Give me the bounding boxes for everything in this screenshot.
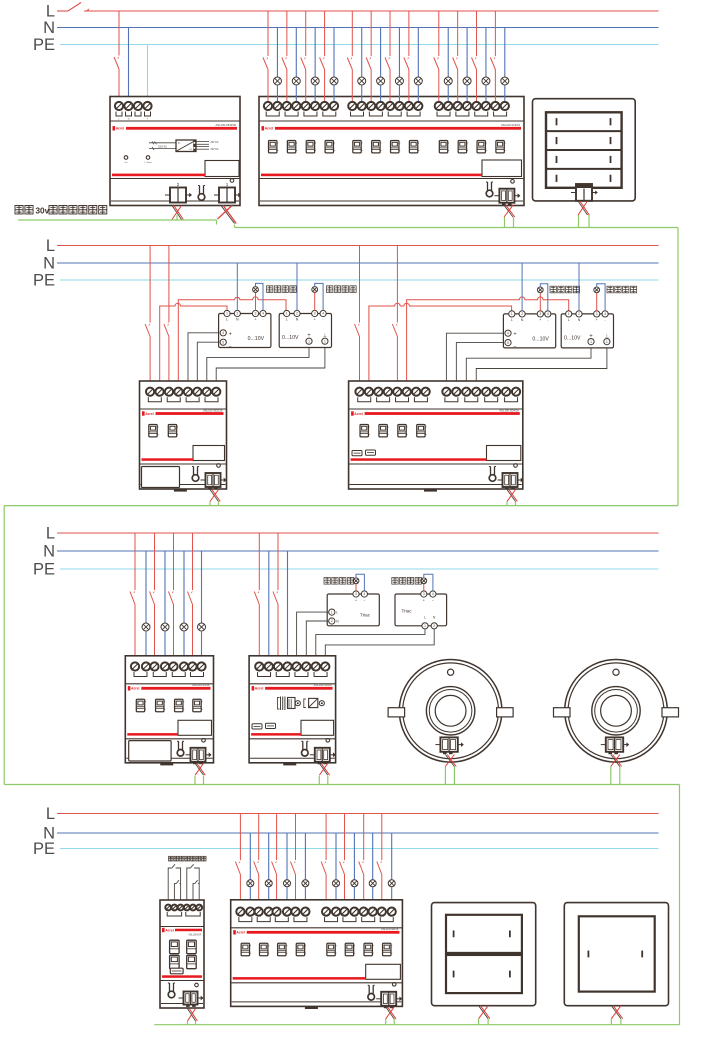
ballast 3 (0...10V) bbox=[503, 314, 555, 348]
dimmer module 2 channel selector switches bbox=[360, 425, 370, 437]
wire PE to PSU terminal 4 bbox=[147, 45, 149, 103]
dimmer module 2 red stripe with logo and model bbox=[351, 411, 354, 415]
svg-text:L: L bbox=[46, 3, 55, 21]
8ch switch actuator face divider bbox=[231, 982, 403, 984]
svg-text:4: 4 bbox=[364, 592, 366, 596]
svg-text:+: + bbox=[255, 318, 257, 322]
binary input KNX connector bbox=[179, 992, 204, 1007]
wire N to PSU terminal 2 bbox=[128, 28, 130, 103]
actuator 12 channel selector switches bbox=[269, 141, 279, 153]
svg-text:+: + bbox=[229, 331, 232, 337]
section3 switch actuator notch panel bbox=[178, 720, 212, 735]
actuator terminal screws group 2 bbox=[348, 102, 356, 110]
svg-text:+: + bbox=[423, 599, 425, 603]
svg-text:Acrel: Acrel bbox=[354, 412, 363, 416]
triac dimmer module lower red stripe bbox=[251, 733, 301, 736]
svg-text:4: 4 bbox=[222, 331, 224, 335]
svg-text:2: 2 bbox=[433, 624, 435, 628]
svg-text:ASL100-S8/16: ASL100-S8/16 bbox=[381, 927, 399, 931]
triac dimmer module face graphic bbox=[278, 698, 280, 710]
wire PE bus bbox=[60, 848, 659, 850]
dimmer module 2 terminal divider bbox=[349, 408, 523, 410]
section3 switch actuator KNX LED bbox=[202, 739, 206, 743]
X junction under dimmer module 2 bbox=[507, 490, 517, 502]
PSU KNX LED bbox=[230, 179, 234, 183]
svg-text:L: L bbox=[511, 318, 513, 322]
lamp load 1 (dimmable) bbox=[255, 292, 257, 310]
svg-text:5: 5 bbox=[507, 341, 509, 345]
svg-text:+: + bbox=[355, 599, 357, 603]
KNX downlight 2 KNX connector bbox=[601, 737, 629, 754]
label dimmable lamp 2 bbox=[327, 286, 333, 293]
X junction under panel bbox=[578, 201, 589, 215]
KNX green bus section2-3 bbox=[4, 505, 678, 507]
triac dimmer box 1 bbox=[327, 594, 379, 626]
green risers KNX downlight 2 bbox=[610, 767, 612, 785]
8ch switch actuator red stripe with logo and model bbox=[233, 930, 236, 934]
svg-text:4: 4 bbox=[507, 331, 509, 335]
svg-text:3: 3 bbox=[596, 312, 598, 316]
PSU notch panel bbox=[205, 161, 239, 177]
label dimmable lamp 4 bbox=[607, 286, 613, 293]
green risers triac module bbox=[318, 776, 320, 785]
binary input KNX LED bbox=[195, 983, 199, 987]
svg-text:L: L bbox=[46, 237, 55, 255]
binary input module body (ASL100-DI4) bbox=[160, 900, 204, 1008]
binary input terminal divider bbox=[160, 926, 204, 928]
wire L to triac-dimmer T3 with breaker bbox=[277, 533, 279, 590]
binary input selector switches bbox=[170, 940, 180, 953]
green risers 8ch actuator bbox=[385, 1019, 387, 1025]
svg-text:Acrel: Acrel bbox=[265, 127, 274, 131]
svg-text:ASL100-S4/16: ASL100-S4/16 bbox=[192, 683, 210, 687]
wire dimmer1 T6 to ballast1 minus bbox=[197, 342, 220, 386]
svg-text:1: 1 bbox=[424, 624, 426, 628]
svg-text:3: 3 bbox=[355, 592, 357, 596]
channel wires L/N with breakers and lamp loads bbox=[267, 11, 269, 56]
svg-text:4: 4 bbox=[322, 312, 324, 316]
svg-text:0...10V: 0...10V bbox=[532, 336, 549, 342]
X junction under binary input bbox=[188, 1009, 198, 1022]
svg-text:3: 3 bbox=[423, 592, 425, 596]
dimmer module 1 face divider bbox=[140, 463, 227, 465]
wire N to triac-dimmer T4 bbox=[287, 551, 289, 666]
green risers binary input bbox=[187, 1021, 189, 1025]
X junction under wall switch panel 2 bbox=[611, 1006, 622, 1019]
dimmer module 1 channel selector switches bbox=[149, 425, 159, 437]
X junction under PSU block 2 bbox=[172, 206, 183, 220]
section3 switch actuator terminal divider bbox=[125, 683, 213, 685]
svg-text:L: L bbox=[568, 318, 570, 322]
section3 actuator channel wires with breakers and lamps bbox=[134, 533, 136, 590]
svg-text:4: 4 bbox=[432, 592, 434, 596]
wire L to dimmer1 T1 with breaker bbox=[149, 246, 151, 323]
svg-text:L: L bbox=[226, 318, 228, 322]
svg-text:Acrel: Acrel bbox=[236, 931, 245, 935]
svg-text:1: 1 bbox=[606, 340, 608, 344]
svg-text:PE: PE bbox=[33, 840, 55, 858]
dimmer module 1 terminal screws bbox=[146, 388, 154, 396]
wall switch panel 1 body bbox=[432, 903, 536, 1006]
PSU red stripe with Acrel logo and model bbox=[113, 126, 116, 130]
8ch actuator channel wires with breakers and lamps bbox=[239, 814, 241, 861]
PSU AC/DC converter graphic bbox=[149, 142, 176, 144]
8ch switch actuator channel selector switches bbox=[241, 943, 251, 955]
X junction under actuator KNX bbox=[504, 205, 515, 217]
triac dimmer module KNX connector bbox=[310, 748, 336, 764]
dimmer module 1 lower red stripe bbox=[142, 458, 194, 461]
wire dimmer2 T12 to ballast4 minus bbox=[476, 345, 607, 388]
wire N to ballast3 T2 bbox=[521, 263, 523, 311]
svg-text:5: 5 bbox=[222, 340, 224, 344]
wall switch panel 1 rockers bbox=[446, 915, 522, 953]
binary input thermometer bbox=[168, 983, 175, 998]
svg-text:Acrel: Acrel bbox=[131, 687, 140, 691]
svg-text:ASL100-SD2/16: ASL100-SD2/16 bbox=[203, 408, 223, 412]
label dimmable lamp 5 bbox=[324, 578, 330, 585]
dimmer module 2 programming ports bbox=[352, 451, 362, 456]
X junction under 8ch switch actuator bbox=[386, 1007, 396, 1019]
wire PE bus bbox=[60, 568, 659, 570]
PSU LED I/Imax bbox=[146, 156, 150, 160]
svg-text:N: N bbox=[43, 543, 55, 561]
svg-text:1: 1 bbox=[331, 610, 333, 614]
8ch switch actuator body (ASL100-S8/16) bbox=[231, 900, 403, 1007]
section3 switch actuator terminal screws bbox=[131, 662, 139, 670]
wire PE bus bbox=[60, 44, 659, 46]
svg-text:1: 1 bbox=[324, 339, 326, 343]
svg-text:4: 4 bbox=[547, 312, 549, 316]
triac dimmer module notch panel bbox=[301, 720, 334, 735]
actuator terminal screws group 3 bbox=[435, 102, 443, 110]
wall switch panel 2 rockers bbox=[579, 916, 655, 991]
PSU terminal section divider bbox=[110, 120, 240, 122]
dimmer module 2 KNX LED bbox=[514, 464, 518, 468]
svg-text:L: L bbox=[424, 616, 426, 620]
8ch switch actuator KNX connector bbox=[376, 992, 402, 1008]
KNX downlight 2 body bbox=[565, 660, 668, 763]
svg-text:L: L bbox=[46, 805, 55, 823]
label dimmable lamp 1 bbox=[267, 286, 273, 293]
dimmer module 1 thermometer icon bbox=[192, 467, 199, 482]
svg-text:2: 2 bbox=[296, 312, 298, 316]
svg-text:ASL100-SD1/6: ASL100-SD1/6 bbox=[314, 683, 332, 687]
KNX green bus B bbox=[235, 227, 679, 229]
label external dry contact signal bbox=[169, 856, 173, 861]
green risers wall switch panel 2 bbox=[610, 1019, 612, 1025]
actuator terminal divider bbox=[259, 120, 524, 122]
svg-text:3: 3 bbox=[255, 312, 257, 316]
wire triac1 N to module T6 bbox=[306, 621, 328, 666]
X junction under dimmer module 1 bbox=[210, 490, 220, 502]
dimmer module 1 body (ASL100-SD2/16) bbox=[140, 381, 227, 489]
svg-text:+: + bbox=[314, 318, 316, 322]
wire dimmer2 T9 to ballast3 plus bbox=[446, 333, 505, 387]
8ch switch actuator KNX LED bbox=[392, 983, 396, 987]
wire L bus bbox=[57, 813, 659, 815]
dimmer module 1 terminal divider bbox=[140, 408, 227, 410]
wire dimmer2 T6 to ballast4 L bbox=[407, 297, 569, 388]
svg-text:ASL100-DI4: ASL100-DI4 bbox=[188, 934, 201, 937]
section3 switch actuator red stripe with logo and model bbox=[128, 686, 131, 690]
X junction under PSU block 1 bbox=[221, 206, 235, 224]
actuator thermometer icon bbox=[486, 182, 493, 197]
KNX downlight 1 body bbox=[399, 660, 502, 763]
section3 switch actuator label plate bbox=[129, 741, 171, 761]
PSU face divider bbox=[110, 178, 240, 180]
triac dimmer module terminal divider bbox=[249, 683, 336, 685]
binary input dry-contact wires bbox=[168, 868, 172, 910]
triac dimmer module terminal screws bbox=[255, 662, 263, 670]
svg-text:1: 1 bbox=[590, 340, 592, 344]
wire triac2 N to module T8 bbox=[325, 629, 434, 666]
lamp load 3 (dimmable) bbox=[539, 293, 541, 311]
wire L bus bbox=[57, 245, 659, 247]
dimmer module 2 notch panel bbox=[487, 446, 521, 461]
svg-text:L: L bbox=[286, 318, 288, 322]
binary input terminal screws bbox=[165, 905, 171, 911]
svg-text:ASL100-SD4/16: ASL100-SD4/16 bbox=[499, 408, 519, 412]
ballast 2 (0...10V) bbox=[279, 314, 331, 348]
section3 switch actuator body (ASL100-S4/16) bbox=[125, 656, 213, 763]
svg-text:Triac: Triac bbox=[401, 609, 412, 614]
svg-text:220V AC: 220V AC bbox=[158, 146, 167, 149]
dimmer module 1 KNX LED bbox=[217, 464, 221, 468]
8ch switch actuator thermometer icon bbox=[368, 985, 375, 1000]
dimmer module 1 notch panel bbox=[193, 446, 225, 461]
wire L to triac-dimmer T1 with breaker bbox=[258, 533, 260, 590]
svg-text:0...10V: 0...10V bbox=[248, 336, 265, 342]
actuator KNX connector bbox=[494, 189, 520, 205]
wire L bus with main switch bbox=[57, 10, 68, 12]
wire triac2 L to module T7 bbox=[316, 629, 425, 666]
triac dimmer module red stripe with logo and model bbox=[252, 686, 255, 690]
ballast 4 (0...10V) bbox=[561, 314, 613, 348]
svg-text:-: - bbox=[605, 318, 606, 322]
X junction under KNX downlight 1 bbox=[445, 755, 456, 767]
green risers dimmer2 to bus bbox=[506, 502, 508, 506]
8ch switch actuator terminal screws bbox=[236, 908, 244, 916]
green risers KNX downlight 1 bbox=[444, 767, 446, 785]
svg-text:3: 3 bbox=[539, 312, 541, 316]
wire N to triac-dimmer T2 bbox=[268, 551, 270, 666]
wire L to dimmer1 T3 with breaker bbox=[168, 246, 170, 323]
section3 switch actuator channel selector switches bbox=[136, 699, 146, 711]
dimmer module 2 thermometer icon bbox=[489, 467, 496, 482]
lamp load 4 (dimmable) bbox=[596, 293, 598, 311]
wire L to dimmer2 T5 with breaker bbox=[396, 246, 398, 323]
green risers dimmer1 to bus bbox=[209, 502, 211, 506]
dimmer module 2 KNX connector bbox=[498, 473, 524, 489]
svg-text:I / Imax: I / Imax bbox=[144, 162, 152, 164]
wire N bus bbox=[57, 550, 659, 552]
wire N to ballast1 T2 bbox=[236, 263, 238, 311]
dimmer module 1 red stripe with logo and model bbox=[142, 411, 145, 415]
svg-text:+: + bbox=[513, 332, 516, 338]
wire N bus bbox=[57, 832, 659, 834]
wire dimmer2 T11 to ballast4 plus bbox=[466, 345, 591, 388]
X junction under section3 switch actuator bbox=[195, 763, 205, 775]
triac dimmer box 2 bbox=[395, 594, 447, 626]
KNX green bus A from PSU output bbox=[18, 219, 217, 221]
svg-text:-: - bbox=[323, 318, 324, 322]
wire dimmer1 T5 to ballast1 plus bbox=[188, 333, 220, 387]
svg-text:30v: 30v bbox=[36, 207, 50, 216]
svg-text:2: 2 bbox=[521, 312, 523, 316]
label dimmable lamp 6 bbox=[392, 578, 398, 585]
svg-text:1: 1 bbox=[226, 312, 228, 316]
8ch switch actuator lower red stripe bbox=[233, 977, 366, 980]
svg-text:2: 2 bbox=[236, 312, 238, 316]
wire PE bus bbox=[60, 279, 659, 281]
green risers wall switch panel 1 bbox=[478, 1019, 480, 1025]
svg-text:Acrel: Acrel bbox=[165, 928, 174, 932]
wire dimmer2 T2 to ballast3 L bbox=[369, 303, 512, 387]
svg-text:29V DC: 29V DC bbox=[211, 149, 219, 151]
switch actuator ASL100-S12/16 body bbox=[259, 97, 524, 206]
8ch switch actuator notch panel bbox=[366, 964, 401, 979]
svg-text:-: - bbox=[262, 318, 263, 322]
X junction under wall switch panel 1 bbox=[479, 1006, 490, 1019]
wire triac1 L to module T5 bbox=[297, 612, 329, 665]
svg-text:1: 1 bbox=[308, 339, 310, 343]
actuator notch panel bbox=[482, 160, 522, 177]
svg-text:1: 1 bbox=[511, 312, 513, 316]
dimmer module 2 body (ASL100-SD4/16) bbox=[349, 381, 523, 489]
actuator red stripe with logo and model bbox=[262, 126, 265, 130]
lamp load 5 (triac 1) bbox=[355, 584, 357, 591]
binary input red stripe bbox=[162, 928, 165, 932]
X junction under triac dimmer module bbox=[319, 763, 329, 775]
wall switch panel 2 body bbox=[564, 903, 668, 1006]
svg-text:ASL100-P640/30: ASL100-P640/30 bbox=[216, 123, 237, 127]
wire L to PSU terminal 1 with breaker bbox=[118, 11, 120, 56]
svg-text:+: + bbox=[596, 318, 598, 322]
wire dimmer1 T2 to ballast1 L bbox=[160, 303, 227, 386]
triac dimmer module KNX LED bbox=[326, 739, 330, 743]
svg-text:Triac: Triac bbox=[360, 613, 371, 618]
ballast 1 (0...10V) bbox=[219, 314, 271, 348]
dimmer module 1 label plate bbox=[142, 467, 180, 488]
wire N bus bbox=[57, 262, 659, 264]
dimmer module 1 KNX connector bbox=[201, 473, 227, 489]
wire N to ballast2 T2 bbox=[296, 263, 298, 311]
svg-text:2: 2 bbox=[578, 312, 580, 316]
wire dimmer1 T8 to ballast2 minus bbox=[216, 345, 325, 387]
KNX downlight 1 KNX connector bbox=[435, 737, 463, 754]
PSU lower red stripe bbox=[112, 174, 205, 177]
triac dimmer module thermometer icon bbox=[301, 741, 308, 756]
svg-text:Acrel: Acrel bbox=[116, 127, 125, 131]
svg-text:PE: PE bbox=[33, 36, 55, 54]
PSU LED On bbox=[124, 156, 128, 160]
push button panel body bbox=[533, 99, 636, 201]
dimmer module 2 lower red stripe bbox=[351, 458, 487, 461]
svg-text:+: + bbox=[539, 318, 541, 322]
panel KNX connector bbox=[576, 184, 592, 189]
svg-text:Acrel: Acrel bbox=[145, 412, 154, 416]
green risers section3 actuator bbox=[194, 776, 196, 785]
svg-text:L: L bbox=[46, 525, 55, 543]
svg-text:PE: PE bbox=[33, 561, 55, 579]
wire N bus bbox=[57, 27, 659, 29]
actuator lower red stripe bbox=[261, 174, 482, 177]
wire dimmer1 T4 to ballast2 L bbox=[178, 297, 286, 387]
svg-text:L: L bbox=[336, 611, 338, 615]
section3 switch actuator face divider bbox=[125, 738, 213, 740]
push button panel 4 rockers bbox=[546, 112, 622, 188]
PSU terminal screws L N - PE bbox=[115, 102, 123, 110]
X junction under KNX downlight 2 bbox=[611, 755, 622, 767]
svg-text:N: N bbox=[43, 19, 55, 37]
section3 switch actuator thermometer icon bbox=[177, 741, 184, 756]
wire L to dimmer2 T1 with breaker bbox=[359, 246, 361, 323]
binary input face divider bbox=[160, 980, 204, 982]
svg-text:4: 4 bbox=[262, 312, 264, 316]
wire dimmer2 T10 to ballast3 minus bbox=[456, 343, 505, 388]
svg-text:PE: PE bbox=[33, 272, 55, 290]
wire L bus bbox=[57, 532, 659, 534]
KNX green bus section4 bbox=[154, 1024, 679, 1026]
power supply module ASL100-P640/30 body bbox=[110, 97, 240, 206]
wire N to ballast4 T2 bbox=[578, 263, 580, 311]
svg-text:N: N bbox=[43, 255, 55, 273]
label 30V aux DC supply bbox=[15, 206, 23, 214]
svg-text:29V DC: 29V DC bbox=[211, 142, 219, 144]
svg-text:0...10V: 0...10V bbox=[564, 335, 581, 341]
svg-text:ASL100-S12/16: ASL100-S12/16 bbox=[501, 123, 520, 127]
label dimmable lamp 3 bbox=[550, 286, 556, 293]
section3 switch actuator lower red stripe bbox=[127, 733, 178, 736]
wire dimmer1 T7 to ballast2 plus bbox=[207, 345, 309, 387]
svg-text:1: 1 bbox=[286, 312, 288, 316]
svg-text:-: - bbox=[547, 318, 548, 322]
svg-text:1: 1 bbox=[568, 312, 570, 316]
triac dimmer module body (ASL100-SD1/6) bbox=[249, 656, 336, 763]
dimmer module 2 face divider bbox=[349, 463, 523, 465]
svg-text:2: 2 bbox=[331, 619, 333, 623]
actuator terminal screws group 1 bbox=[264, 102, 272, 110]
triac dimmer module face divider bbox=[249, 738, 336, 740]
svg-text:3: 3 bbox=[314, 312, 316, 316]
PSU thermometer icon bbox=[198, 186, 205, 201]
dimmer module 2 terminal screws bbox=[355, 388, 363, 396]
KNX green bus section3 bottom bbox=[4, 784, 679, 786]
svg-text:4: 4 bbox=[604, 312, 606, 316]
svg-text:Acrel: Acrel bbox=[255, 687, 264, 691]
binary input lower red stripe bbox=[162, 975, 202, 978]
lamp load 2 (dimmable) bbox=[314, 292, 316, 310]
section3 switch actuator KNX connector bbox=[186, 748, 212, 764]
triac dimmer module programming ports bbox=[252, 724, 262, 729]
actuator face divider bbox=[259, 178, 524, 180]
lamp load 6 (triac 2) bbox=[423, 584, 425, 591]
8ch switch actuator terminal divider bbox=[231, 927, 403, 929]
svg-text:0...10V: 0...10V bbox=[282, 335, 299, 341]
actuator KNX LED bbox=[511, 180, 515, 184]
